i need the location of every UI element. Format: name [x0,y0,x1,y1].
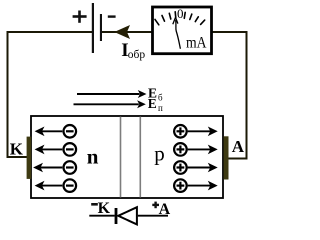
svg-text:A: A [159,201,171,218]
milliammeter scale ticks [155,12,205,25]
hole row 3: arrow right [188,163,218,173]
junction boundary left [120,117,122,198]
junction boundary right [139,117,141,198]
electron row 2: minus carrier [64,143,77,156]
diode VD: cathode bar [115,208,118,224]
svg-text:K: K [98,200,111,217]
electron row 1: minus carrier [64,125,77,138]
label plus A [152,201,170,218]
hole row 2: plus carrier [174,143,187,156]
diode VD: triangle [118,207,137,224]
electrode K (cathode contact) [27,137,32,179]
battery GB: long positive plate [92,3,94,53]
electron row 3: arrow left [33,163,62,173]
svg-text:K: K [10,139,24,158]
svg-text:n: n [87,144,99,168]
hole row 1: plus carrier [174,125,187,138]
wire: battery - to ammeter [102,31,152,33]
svg-text:mA: mA [186,35,207,52]
label E_p [148,96,163,113]
battery polarity - [108,15,116,17]
battery GB: short negative plate [100,14,102,41]
label minus K [91,200,110,217]
hole row 1: arrow right [188,127,218,137]
electron row 4: minus carrier [64,179,77,192]
diode VD: left lead [89,215,114,217]
arrow: field E_b (battery field) [77,90,147,98]
battery polarity + [73,11,87,23]
hole row 4: arrow right [188,181,218,191]
svg-text:п: п [158,103,163,113]
svg-text:p: p [154,141,165,165]
svg-text:б: б [158,92,163,102]
svg-text:A: A [232,137,245,156]
label I obr [121,40,145,61]
electron row 1: arrow left [35,127,63,137]
svg-text:обр: обр [128,49,146,61]
electron row 2: arrow left [35,145,63,155]
hole row 3: plus carrier [174,161,187,174]
electron row 4: arrow left [35,181,63,191]
electron row 3: minus carrier [64,161,77,174]
svg-text:0: 0 [177,6,184,21]
arrow: reverse current direction (points left) [114,25,130,39]
diode VD: right lead [138,215,168,217]
semiconductor body [31,116,223,198]
milliammeter PA: body [153,7,212,54]
hole row 4: plus carrier [174,179,187,192]
wire: left loop from battery + down to K contact [8,32,93,157]
electrode A (anode contact) [224,136,229,179]
hole row 2: arrow right [188,145,218,155]
arrow: field E_p (junction field) [74,100,146,108]
milliammeter needle [173,17,181,48]
wire: ammeter right, down to A contact [213,32,247,159]
svg-text:E: E [148,96,157,111]
label E_b [148,86,163,103]
